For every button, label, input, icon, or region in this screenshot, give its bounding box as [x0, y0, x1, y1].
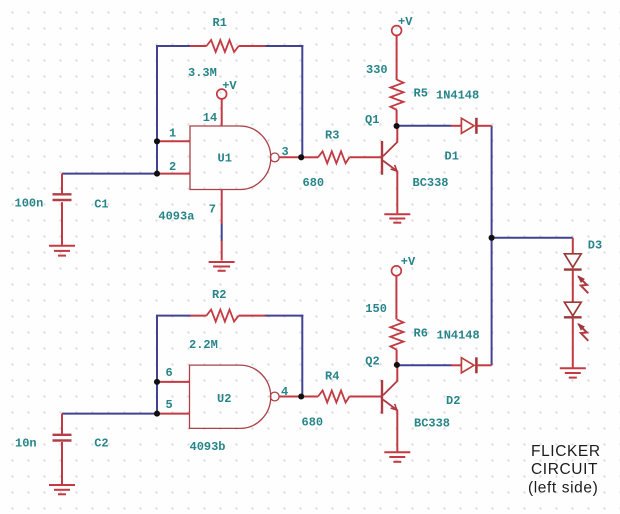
- svg-text:CIRCUIT: CIRCUIT: [531, 461, 598, 478]
- LED pair D3: [572, 238, 574, 254]
- svg-text:R4: R4: [325, 370, 339, 384]
- node pin2 junction: [154, 171, 160, 177]
- svg-text:+V: +V: [401, 255, 416, 269]
- svg-text:R2: R2: [212, 288, 226, 302]
- ground below C1: [49, 246, 75, 256]
- svg-text:R5: R5: [414, 87, 428, 101]
- svg-text:5: 5: [166, 398, 173, 412]
- resistor R4: [303, 391, 381, 403]
- wire Q1 collector node to D1: [397, 125, 452, 127]
- svg-text:2.2M: 2.2M: [189, 338, 218, 352]
- svg-text:D3: D3: [588, 239, 602, 253]
- power +V Q2 branch: [392, 266, 402, 276]
- wire bottom left horizontal to R2: [156, 315, 191, 317]
- ground below Q2: [384, 452, 410, 462]
- svg-text:4093a: 4093a: [158, 210, 194, 224]
- power +V U1 pin14: [217, 89, 227, 99]
- diode D2 1N4148: [451, 364, 461, 366]
- ground below D3: [560, 368, 586, 377]
- svg-text:U1: U1: [218, 152, 232, 166]
- svg-text:D1: D1: [445, 150, 459, 164]
- ground below U1 pin 7: [209, 262, 235, 271]
- node pin6 junction: [154, 379, 160, 385]
- svg-text:C1: C1: [94, 198, 108, 212]
- Q1 collector lead: [396, 126, 398, 143]
- ground below C2: [49, 485, 75, 494]
- U1 pin 14 lead: [221, 99, 223, 126]
- node Q1 collector junction: [394, 123, 400, 129]
- svg-text:R3: R3: [325, 129, 339, 143]
- transistor Q1 BC338: [382, 141, 397, 175]
- svg-text:680: 680: [302, 416, 324, 430]
- op-amp U2 NAND gate 4093b: [190, 365, 280, 428]
- svg-text:100n: 100n: [15, 197, 44, 211]
- svg-text:C2: C2: [94, 437, 108, 451]
- node Q2 collector junction: [394, 362, 400, 368]
- ground below Q1: [384, 214, 410, 222]
- transistor Q2 BC338: [382, 380, 397, 414]
- node right bus junction: [489, 235, 495, 241]
- wire Q2 collector node to D2: [397, 364, 452, 366]
- resistor R3: [303, 151, 381, 163]
- svg-text:D2: D2: [446, 394, 460, 408]
- svg-text:2: 2: [169, 160, 176, 174]
- svg-text:7: 7: [209, 203, 216, 217]
- node U1 output junction: [298, 154, 304, 160]
- U2 output pin 4 lead: [279, 396, 301, 398]
- svg-text:330: 330: [366, 63, 388, 77]
- svg-text:R1: R1: [213, 16, 227, 30]
- wire feedback loop U2 left vertical: [156, 316, 158, 414]
- U1 pin 1 lead: [158, 140, 190, 142]
- resistor R5: [390, 80, 403, 126]
- svg-text:4: 4: [281, 385, 288, 399]
- power +V top: [392, 26, 402, 36]
- svg-text:150: 150: [365, 302, 387, 316]
- wire top left horizontal to R1: [156, 45, 191, 47]
- U1 output pin 3 lead: [279, 156, 301, 158]
- wire right vertical D1 to D2: [491, 126, 493, 365]
- LED D3 lower: [564, 302, 581, 316]
- resistor R2: [190, 310, 266, 322]
- svg-text:1N4148: 1N4148: [436, 89, 479, 103]
- svg-text:3: 3: [282, 145, 289, 159]
- U1 pin 2 lead: [158, 173, 190, 175]
- resistor R1: [190, 40, 266, 52]
- svg-text:14: 14: [203, 111, 217, 125]
- LED D3 upper: [564, 254, 581, 268]
- svg-text:1N4148: 1N4148: [437, 328, 480, 342]
- diode D1 1N4148: [451, 125, 461, 127]
- svg-text:Q1: Q1: [365, 113, 379, 127]
- wire top right horizontal from R1: [265, 45, 304, 47]
- U2 pin 6 lead: [158, 381, 190, 383]
- capacitor C2: [53, 435, 72, 441]
- node pin1 junction: [154, 138, 160, 144]
- svg-text:BC338: BC338: [413, 176, 449, 190]
- wire pin7 segment: [221, 224, 223, 242]
- svg-text:FLICKER: FLICKER: [531, 443, 601, 460]
- Q2 collector lead: [396, 365, 398, 382]
- svg-text:680: 680: [303, 176, 325, 190]
- svg-text:6: 6: [166, 366, 173, 380]
- Q1 emitter lead: [396, 171, 398, 214]
- wire feedback loop U1 left vertical: [156, 46, 158, 174]
- U1 pin 7 lead: [221, 190, 223, 225]
- svg-text:+V: +V: [398, 15, 413, 29]
- wire C2 to pin5 horizontal: [62, 413, 157, 415]
- svg-text:BC338: BC338: [414, 416, 450, 430]
- U2 pin 5 lead: [158, 413, 190, 415]
- svg-text:+V: +V: [222, 79, 237, 93]
- svg-text:4093b: 4093b: [190, 440, 226, 454]
- svg-text:3.3M: 3.3M: [188, 66, 217, 80]
- capacitor C1: [53, 194, 72, 200]
- resistor R6: [390, 319, 403, 365]
- svg-text:Q2: Q2: [365, 355, 379, 369]
- node pin5 junction: [154, 411, 160, 417]
- node U2 output junction: [298, 393, 304, 399]
- svg-text:R6: R6: [414, 327, 428, 341]
- wire junction to D3 branch: [492, 237, 573, 239]
- wire right vertical down to U2 output node: [301, 315, 303, 397]
- svg-text:U2: U2: [217, 392, 231, 406]
- wire C1 to pin2 horizontal: [62, 173, 157, 175]
- wire bottom right horizontal from R2: [265, 315, 304, 317]
- svg-text:1: 1: [169, 126, 176, 140]
- svg-text:(left side): (left side): [528, 480, 598, 497]
- U1 pin 7 lead lower red: [221, 241, 223, 261]
- wire right vertical down to U1 output node: [301, 45, 303, 157]
- op-amp U1 NAND gate 4093a: [190, 126, 279, 190]
- svg-text:10n: 10n: [15, 437, 37, 451]
- Q2 emitter lead: [396, 410, 398, 452]
